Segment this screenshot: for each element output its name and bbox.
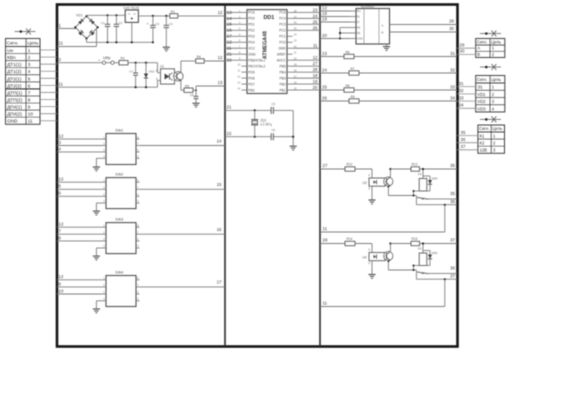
wire 22 to DD1 pin 9 <box>225 58 242 63</box>
wire 16 (DA3 out) <box>140 227 226 234</box>
connector X2 symbol <box>480 31 501 37</box>
svg-text:+: + <box>147 22 149 26</box>
svg-text:R12: R12 <box>347 163 353 167</box>
svg-text:Цепь: Цепь <box>27 41 39 47</box>
resistor R6 <box>344 50 354 58</box>
phototransistor <box>384 177 393 186</box>
relay contact K1.1 <box>416 196 428 200</box>
wire collector rail <box>389 242 411 251</box>
svg-text:PB7/XTAL2: PB7/XTAL2 <box>248 64 265 68</box>
ground (U4) <box>368 275 375 279</box>
ground (DA4) <box>93 301 103 313</box>
svg-text:Цепь: Цепь <box>491 77 502 82</box>
wire 17 (DA4 out) <box>140 280 226 287</box>
svg-text:R1: R1 <box>171 10 175 14</box>
wire 14 to DD1 pin 2 <box>225 16 242 21</box>
svg-text:1: 1 <box>28 48 31 53</box>
connector X4 symbol <box>480 116 501 122</box>
wire 31 stub <box>457 81 476 87</box>
svg-text:32: 32 <box>459 88 464 93</box>
svg-text:R3: R3 <box>121 56 125 60</box>
svg-text:Сигн.: Сигн. <box>479 126 489 131</box>
diode VD6 <box>414 251 438 266</box>
svg-text:PC4: PC4 <box>279 17 286 21</box>
wire 35 (contact out) <box>429 191 458 199</box>
wire to opto anode <box>355 244 372 253</box>
wire 21 (XTAL1) <box>225 105 271 112</box>
svg-text:37: 37 <box>450 273 455 278</box>
resistor R7 <box>349 67 359 75</box>
svg-text:7: 7 <box>28 90 31 95</box>
svg-text:17: 17 <box>217 280 222 285</box>
resistor R9 <box>349 95 359 103</box>
wire 11 return rail <box>320 278 446 306</box>
wire 6 to DA2 <box>57 191 103 197</box>
wire 31 <box>354 51 457 57</box>
svg-text:22: 22 <box>227 58 232 63</box>
wire 16 to DD1 pin 4 <box>225 28 242 33</box>
resistor R14 <box>345 237 355 246</box>
svg-text:C4: C4 <box>169 22 173 26</box>
op-amp DA2 <box>103 171 140 208</box>
wire collector rail <box>389 168 411 177</box>
wire 11 from DD1 <box>293 43 321 48</box>
wire 5 to DA2 <box>57 184 103 190</box>
capacitor C7 <box>129 63 138 87</box>
wire 23 <box>320 51 344 57</box>
svg-text:ДП4(2): ДП4(2) <box>7 112 22 117</box>
svg-text:20: 20 <box>313 85 318 90</box>
svg-text:PD2: PD2 <box>248 29 255 33</box>
wire 19 from DD1 <box>293 79 321 84</box>
wire 25 from DD1 <box>293 19 321 24</box>
svg-text:15: 15 <box>227 22 232 27</box>
wire 11 to DD1 pin 7 <box>225 46 242 51</box>
block divider left/middle <box>224 5 226 347</box>
relay contact K2.1 <box>416 270 428 274</box>
svg-text:Э1: Э1 <box>477 85 483 90</box>
wire 26 from DD1 <box>293 25 321 30</box>
wire 11 return rail <box>320 204 446 232</box>
svg-text:14: 14 <box>227 16 232 21</box>
svg-text:R4: R4 <box>197 55 201 59</box>
svg-text:11: 11 <box>59 41 64 46</box>
svg-text:3: 3 <box>28 62 31 67</box>
svg-text:35: 35 <box>450 163 455 168</box>
svg-text:R15: R15 <box>412 237 418 241</box>
svg-text:PB2: PB2 <box>279 82 285 86</box>
op-amp DA4 <box>103 269 140 306</box>
svg-text:19: 19 <box>322 17 327 22</box>
svg-text:29: 29 <box>449 19 454 24</box>
svg-text:VD2: VD2 <box>149 70 155 74</box>
svg-text:RE: RE <box>357 26 361 30</box>
svg-text:ДП4(1): ДП4(1) <box>7 105 22 110</box>
wire 10 to DA4 <box>57 288 103 294</box>
svg-text:12: 12 <box>313 55 318 60</box>
svg-text:PB4: PB4 <box>279 70 285 74</box>
svg-text:21: 21 <box>227 105 232 110</box>
node out/C3 <box>152 15 154 17</box>
svg-text:14: 14 <box>217 138 222 143</box>
svg-text:26: 26 <box>313 25 318 30</box>
svg-text:C8: C8 <box>190 93 194 97</box>
svg-text:DA5 78L05: DA5 78L05 <box>124 6 140 10</box>
svg-text:C2: C2 <box>119 21 123 25</box>
svg-text:RO: RO <box>357 9 361 13</box>
optocoupler U1 <box>156 63 175 87</box>
svg-text:C5: C5 <box>271 102 275 106</box>
capacitor C6 <box>271 128 293 140</box>
wire 25 <box>320 84 344 90</box>
svg-text:K2: K2 <box>418 247 422 251</box>
svg-text:PC6: PC6 <box>248 11 255 15</box>
svg-text:C6: C6 <box>271 128 275 132</box>
svg-text:R13: R13 <box>412 163 418 167</box>
svg-text:33: 33 <box>459 95 464 100</box>
wire 17 to DD1 pin 5 <box>225 34 242 39</box>
wire 11 (gnd rail UVu) <box>57 81 158 88</box>
svg-text:PB5: PB5 <box>279 64 285 68</box>
svg-text:12: 12 <box>59 274 64 279</box>
wire collector to +5 <box>181 61 196 72</box>
wire 35 (12V rail) <box>420 163 458 169</box>
capacitor C1 <box>101 15 110 42</box>
wire 2 (KVA in) <box>57 57 102 63</box>
svg-text:11: 11 <box>59 81 64 86</box>
connector X4 table <box>478 125 505 153</box>
wire 12 to DA3 <box>57 222 103 228</box>
resistor R3 <box>119 56 128 65</box>
svg-text:VD1: VD1 <box>477 92 486 97</box>
relay coil K1 <box>418 168 427 191</box>
svg-text:ДТП(2): ДТП(2) <box>7 97 23 102</box>
ground (C8) <box>192 103 199 107</box>
ground (U3) <box>368 200 375 204</box>
connector X1 table <box>6 39 41 125</box>
svg-text:13: 13 <box>218 80 223 85</box>
svg-text:30: 30 <box>449 26 454 31</box>
svg-text:PD4: PD4 <box>248 41 255 45</box>
svg-text:29: 29 <box>460 42 465 47</box>
svg-text:24: 24 <box>322 67 327 72</box>
svg-text:32: 32 <box>450 67 455 72</box>
phototransistor <box>384 251 393 260</box>
node raw/C2 <box>115 14 117 16</box>
op-amp DA1 <box>103 127 140 164</box>
svg-text:25: 25 <box>313 19 318 24</box>
wire 29 (A) <box>390 19 458 25</box>
wire 26 <box>320 95 349 101</box>
wire 29 stub <box>457 42 476 48</box>
svg-text:GND: GND <box>7 119 18 124</box>
wire 21 to DD1 pin 8 <box>225 52 242 57</box>
svg-text:C1: C1 <box>101 21 105 25</box>
resistor R13 <box>411 163 420 172</box>
svg-text:R6: R6 <box>346 50 350 54</box>
svg-text:18: 18 <box>313 73 318 78</box>
svg-text:35: 35 <box>461 130 466 135</box>
wire X1 pin 3 stub <box>40 63 57 65</box>
wire to opto anode <box>355 169 372 178</box>
wire 20 to DD2 (RE/DE) <box>320 28 350 40</box>
wire 22 (XTAL2) <box>225 131 271 138</box>
svg-text:PD3: PD3 <box>248 35 255 39</box>
svg-text:12В: 12В <box>480 148 488 153</box>
svg-text:27: 27 <box>313 61 318 66</box>
svg-text:15: 15 <box>217 182 222 187</box>
svg-text:PD1: PD1 <box>248 23 255 27</box>
svg-text:ADM485: ADM485 <box>361 5 374 9</box>
svg-text:K1: K1 <box>418 172 422 176</box>
resistor R8 <box>344 84 354 92</box>
diode VD5 <box>414 176 438 191</box>
wire 28 from DD1 <box>293 67 321 72</box>
svg-text:5: 5 <box>28 76 31 81</box>
wire 19 to DD2 <box>320 17 350 22</box>
svg-text:37: 37 <box>450 237 455 242</box>
svg-text:R7: R7 <box>351 67 355 71</box>
wire 33 <box>354 84 457 90</box>
svg-text:Сигн.: Сигн. <box>477 77 487 82</box>
wire 13 to DD1 pin 1 <box>225 10 242 15</box>
svg-text:VD6: VD6 <box>432 251 438 255</box>
resistor R5 <box>184 84 193 92</box>
svg-text:КВА: КВА <box>7 55 17 60</box>
svg-text:31: 31 <box>450 51 455 56</box>
ground (DA1) <box>93 158 103 171</box>
wire 24 <box>320 67 349 73</box>
connector X2 table <box>476 39 505 58</box>
wire X1 pin 7 stub <box>40 91 57 93</box>
wire 12 (edge) <box>204 55 225 61</box>
svg-text:PD0: PD0 <box>248 17 255 21</box>
svg-text:Цепь: Цепь <box>492 126 503 131</box>
svg-text:ДТ1(2): ДТ1(2) <box>7 69 22 74</box>
svg-text:A: A <box>477 46 480 51</box>
svg-text:VD1: VD1 <box>76 14 83 18</box>
node out/C4 <box>165 15 167 17</box>
svg-text:30: 30 <box>460 49 465 54</box>
wire emitter <box>181 81 184 90</box>
svg-text:2: 2 <box>28 55 31 60</box>
svg-text:37: 37 <box>461 144 466 149</box>
svg-text:12: 12 <box>59 222 64 227</box>
wire 36 (contact out) <box>429 266 458 274</box>
wire X1 pin 5 stub <box>40 77 57 79</box>
wire 12 to DD1 pin 6 <box>225 40 242 45</box>
wire 30 (B) <box>390 26 458 32</box>
wire 37 (12V rail) <box>420 237 458 243</box>
svg-text:PB1: PB1 <box>279 88 285 92</box>
svg-text:UВу: UВу <box>103 55 111 60</box>
svg-text:19: 19 <box>313 79 318 84</box>
wire emitter <box>387 186 416 197</box>
svg-text:16: 16 <box>217 227 222 232</box>
wire 12 to DD2 <box>320 6 350 11</box>
regulator DA5 78L05 <box>124 6 140 23</box>
wire X1 pin 10 stub <box>40 113 57 115</box>
wire to opto <box>128 62 158 64</box>
svg-text:AVCC: AVCC <box>277 58 287 62</box>
svg-text:10: 10 <box>59 288 64 293</box>
wire 1 (AC in) <box>57 23 76 29</box>
svg-text:VD2: VD2 <box>477 99 486 104</box>
wire 28 <box>320 237 345 243</box>
svg-text:31: 31 <box>459 81 464 86</box>
svg-text:PB3: PB3 <box>279 76 285 80</box>
wire xtal right leg <box>292 110 294 146</box>
wire 9 to DA4 <box>57 281 103 287</box>
svg-text:DA2: DA2 <box>116 171 125 176</box>
wire 27 <box>320 163 345 169</box>
ground (DA2) <box>93 203 103 215</box>
svg-text:DA3: DA3 <box>116 216 125 221</box>
wire 12 (+5V to edge) <box>178 10 225 16</box>
block divider middle/right <box>319 5 321 347</box>
connector X3 symbol <box>480 64 501 70</box>
svg-text:35: 35 <box>450 191 455 196</box>
wire 24 from DD1 <box>293 13 321 18</box>
wire 34 stub <box>457 103 476 109</box>
svg-text:DD1: DD1 <box>264 15 275 21</box>
svg-text:36: 36 <box>450 199 455 204</box>
svg-text:C7: C7 <box>129 70 133 74</box>
capacitor C8 <box>190 90 199 103</box>
op-amp DA3 <box>103 216 140 253</box>
test point UVu <box>98 55 119 64</box>
svg-text:GND: GND <box>357 37 363 41</box>
wire 11 (AC return) <box>57 29 97 47</box>
svg-text:11: 11 <box>227 46 232 51</box>
wire 23 from DD1 <box>293 7 321 12</box>
wire 20 from DD1 <box>293 85 321 90</box>
svg-text:Сигн.: Сигн. <box>477 39 487 44</box>
wire 27 from DD1 <box>293 61 321 66</box>
svg-text:34: 34 <box>459 103 464 108</box>
svg-text:9: 9 <box>28 105 31 110</box>
wire 33 stub <box>457 95 476 101</box>
svg-text:12: 12 <box>218 55 223 60</box>
wire 32 stub <box>457 88 476 94</box>
svg-text:A: A <box>382 23 384 27</box>
svg-text:4: 4 <box>28 69 31 74</box>
bridge rectifier VD1 <box>74 14 99 40</box>
svg-text:18: 18 <box>322 11 327 16</box>
wire 12 to DA1 <box>57 134 103 140</box>
wire 8 to DA3 <box>57 235 103 241</box>
ground (C4) <box>163 47 170 51</box>
zener VD2 <box>144 63 155 87</box>
svg-text:36: 36 <box>450 266 455 271</box>
wire X1 pin 8 stub <box>40 99 57 101</box>
optocoupler U3 <box>363 178 386 186</box>
svg-text:16: 16 <box>227 28 232 33</box>
svg-text:R9: R9 <box>351 95 355 99</box>
resistor R15 <box>411 237 420 246</box>
svg-text:PD7: PD7 <box>248 82 255 86</box>
svg-text:DA4: DA4 <box>116 269 125 274</box>
svg-text:B: B <box>477 52 480 57</box>
svg-text:PB0: PB0 <box>248 88 254 92</box>
svg-text:GND: GND <box>248 53 256 57</box>
svg-text:11: 11 <box>323 301 328 306</box>
svg-text:AREF: AREF <box>277 53 286 57</box>
svg-text:R14: R14 <box>347 237 353 241</box>
optocoupler U4 <box>363 253 386 261</box>
ground (xtal) <box>290 146 297 150</box>
svg-text:12: 12 <box>322 6 327 11</box>
svg-text:B: B <box>382 30 384 34</box>
wire X1 pin 6 stub <box>40 84 57 86</box>
svg-text:ДТ1(1): ДТ1(1) <box>7 62 22 67</box>
wire 15 (DA2 out) <box>140 182 226 189</box>
wire 18 to DD2 <box>320 11 350 16</box>
wire 37 (contact common) <box>416 272 457 279</box>
svg-text:C3: C3 <box>155 22 159 26</box>
gnd rail <box>87 38 154 43</box>
wire X1 pin 4 stub <box>40 70 57 72</box>
svg-text:4.1 МГц: 4.1 МГц <box>260 122 272 126</box>
svg-text:22: 22 <box>227 131 232 136</box>
wire 32 <box>359 67 457 73</box>
svg-text:PC5: PC5 <box>279 11 286 15</box>
ground (DD2) <box>383 44 390 50</box>
svg-text:6: 6 <box>28 83 31 88</box>
regulator ground lead <box>131 22 133 42</box>
svg-text:23: 23 <box>322 51 327 56</box>
capacitor C2 <box>114 15 123 42</box>
svg-text:PC2: PC2 <box>279 29 286 33</box>
wire 18 from DD1 <box>293 73 321 78</box>
wire 3 to DA1 <box>57 140 103 146</box>
svg-text:PB6/XTAL1: PB6/XTAL1 <box>248 58 265 62</box>
wire +5V out <box>138 15 169 17</box>
opto cathode to ground <box>368 261 372 275</box>
wire 7 to DA3 <box>57 229 103 235</box>
svg-text:GND: GND <box>278 47 286 51</box>
MCU DD1 ATMEGA48 <box>237 9 297 94</box>
svg-text:VD3: VD3 <box>477 106 486 111</box>
svg-text:Цепь: Цепь <box>491 39 502 44</box>
svg-text:8: 8 <box>28 97 31 102</box>
svg-text:12: 12 <box>59 134 64 139</box>
node raw/C1 <box>106 14 108 16</box>
svg-text:К1: К1 <box>480 134 485 139</box>
svg-text:20: 20 <box>322 33 327 38</box>
resistor R1 <box>170 10 178 18</box>
svg-text:11: 11 <box>323 226 328 231</box>
wire X1 pin 11 stub <box>40 120 57 122</box>
svg-text:U3: U3 <box>363 181 367 185</box>
wire 37 stub <box>457 144 478 150</box>
svg-text:12: 12 <box>59 177 64 182</box>
capacitor C4 <box>164 16 173 47</box>
svg-text:11: 11 <box>28 119 33 124</box>
svg-text:ДТ2(2): ДТ2(2) <box>7 83 22 88</box>
svg-text:28: 28 <box>313 67 318 72</box>
wire 12 to DA4 <box>57 274 103 280</box>
svg-text:ATMEGA48: ATMEGA48 <box>263 31 269 59</box>
svg-text:21: 21 <box>227 52 232 57</box>
schematic outer border <box>57 5 458 347</box>
svg-text:36: 36 <box>461 137 466 142</box>
svg-text:U4: U4 <box>363 256 367 260</box>
phototransistor U1 output <box>174 72 184 82</box>
wire 36 stub <box>457 137 478 143</box>
svg-text:26: 26 <box>322 95 327 100</box>
svg-text:10: 10 <box>28 112 34 117</box>
